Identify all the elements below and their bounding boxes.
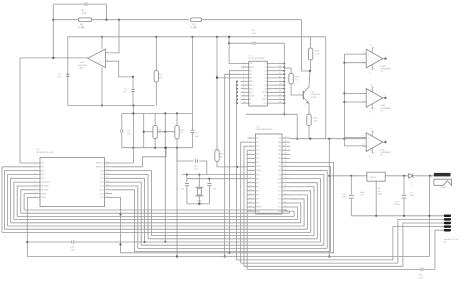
power jack J1: [434, 173, 452, 189]
svg-text:28: 28: [285, 185, 287, 187]
wire: [112, 162, 334, 252]
svg-text:AIM: AIM: [80, 66, 84, 69]
svg-text:7: 7: [250, 161, 251, 163]
svg-text:PC4: PC4: [278, 203, 281, 205]
svg-text:5: 5: [441, 223, 442, 225]
svg-text:PC0: PC0: [278, 186, 281, 188]
svg-text:10: 10: [35, 192, 37, 194]
wire: [26, 197, 32, 256]
wire: [122, 147, 193, 149]
wire: [237, 227, 444, 260]
capacitor C8: [252, 30, 257, 45]
svg-text:LM: LM: [378, 191, 381, 193]
wire: [2, 167, 33, 233]
wire: [309, 71, 310, 87]
wire: [21, 212, 290, 214]
wire: [53, 3, 84, 5]
node bus dots: [236, 81, 238, 260]
svg-text:35: 35: [285, 157, 287, 159]
svg-text:PA6: PA6: [278, 165, 281, 168]
potentiometer R10: [175, 113, 185, 147]
wire: [290, 195, 307, 229]
svg-text:11: 11: [35, 196, 37, 198]
svg-text:PB6: PB6: [256, 199, 259, 201]
wire: [112, 190, 134, 252]
svg-text:21: 21: [279, 73, 281, 75]
svg-text:PB7: PB7: [256, 203, 259, 205]
wire: [164, 113, 166, 131]
resistor R12: [308, 37, 320, 60]
svg-text:PC3: PC3: [278, 199, 281, 201]
crystal Y1: [195, 175, 203, 206]
svg-text:3: 3: [243, 69, 244, 71]
wire: [244, 146, 248, 266]
wire: [105, 4, 107, 20]
svg-text:2: 2: [35, 161, 36, 163]
svg-text:18: 18: [279, 84, 281, 86]
resistor R14: [307, 103, 318, 138]
wire: [241, 142, 248, 263]
wire: [290, 175, 324, 246]
potentiometer R9: [153, 113, 162, 147]
wire: [428, 176, 430, 257]
wire: [246, 113, 297, 115]
wire: [8, 225, 305, 227]
wire: [8, 174, 33, 226]
svg-text:PB.0: PB.0: [41, 163, 45, 165]
svg-text:+5V: +5V: [360, 195, 364, 197]
wire: [187, 186, 210, 205]
wire: [290, 207, 297, 220]
svg-text:PB4: PB4: [256, 191, 259, 193]
svg-text:8: 8: [35, 184, 36, 186]
svg-text:PB.4: PB.4: [41, 178, 45, 180]
svg-text:33: 33: [285, 165, 287, 167]
svg-text:4: 4: [243, 73, 244, 75]
svg-text:2: 2: [243, 66, 244, 68]
svg-text:PB2: PB2: [256, 182, 259, 184]
svg-text:B2: B2: [249, 103, 251, 105]
svg-text:16: 16: [107, 177, 109, 179]
svg-text:PD3: PD3: [256, 150, 259, 152]
wire: [17, 215, 294, 217]
svg-text:6: 6: [35, 177, 36, 179]
transistor Q1: [300, 87, 321, 106]
wire: [112, 178, 146, 243]
wire: [202, 20, 312, 72]
svg-text:12: 12: [107, 161, 109, 163]
IC U4 box: [249, 56, 268, 107]
wire: [88, 3, 107, 5]
wire: [112, 174, 148, 238]
capacitor C17: [395, 176, 407, 216]
svg-text:3: 3: [35, 165, 36, 167]
svg-text:PA3: PA3: [278, 153, 281, 156]
wire: [217, 161, 248, 168]
svg-text:9: 9: [441, 230, 442, 232]
wire: [106, 61, 135, 78]
wire: [112, 186, 138, 248]
svg-text:2: 2: [250, 141, 251, 143]
wire: [291, 84, 303, 95]
svg-text:B4: B4: [265, 88, 267, 90]
wire: [344, 101, 366, 103]
svg-text:25: 25: [285, 197, 287, 199]
svg-text:PD.5: PD.5: [100, 182, 104, 184]
IC U2 left pins: [248, 137, 262, 213]
svg-text:1M: 1M: [159, 77, 162, 79]
svg-text:CMP/PD.1: CMP/PD.1: [96, 163, 104, 165]
svg-text:22: 22: [279, 69, 281, 71]
svg-text:PB.7/SCK: PB.7/SCK: [41, 190, 49, 192]
wire: [344, 137, 366, 139]
wire: [21, 190, 33, 213]
wire: [27, 241, 320, 243]
svg-text:1uF: 1uF: [123, 92, 127, 94]
IC U3 right pins: [96, 161, 112, 199]
svg-text:RESET: RESET: [256, 207, 262, 209]
svg-text:XTAL2: XTAL2: [256, 165, 261, 168]
wire: [328, 139, 330, 258]
wire: [24, 194, 32, 210]
svg-text:40: 40: [285, 137, 287, 139]
wire: [5, 228, 308, 230]
wire: [20, 57, 88, 59]
svg-text:OSC1: OSC1: [99, 193, 104, 195]
wire: [343, 54, 345, 146]
svg-text:B8: B8: [265, 85, 267, 87]
wire: [5, 171, 33, 230]
wire: [290, 183, 317, 239]
svg-text:PB1: PB1: [256, 178, 259, 180]
svg-text:3: 3: [373, 131, 374, 133]
svg-text:2N3904A: 2N3904A: [311, 93, 320, 96]
svg-text:14: 14: [107, 169, 109, 171]
svg-text:14: 14: [385, 139, 387, 141]
resistor R5: [190, 18, 201, 30]
svg-text:D4: D4: [265, 70, 267, 72]
svg-text:INLO: INLO: [249, 88, 254, 90]
svg-text:RESET: RESET: [41, 193, 47, 195]
svg-text:24: 24: [279, 62, 281, 64]
svg-text:PB0: PB0: [256, 174, 259, 176]
wire: [329, 175, 367, 177]
svg-text:27: 27: [285, 189, 287, 191]
svg-text:4.99K: 4.99K: [191, 26, 198, 29]
wire: [106, 20, 120, 53]
wire: [199, 161, 206, 175]
svg-text:12: 12: [243, 102, 245, 104]
svg-text:23: 23: [285, 205, 287, 207]
wire: [17, 186, 32, 216]
svg-text:16: 16: [279, 91, 281, 93]
wire: [143, 113, 145, 147]
svg-text:17: 17: [107, 181, 109, 183]
wire: [2, 231, 311, 233]
svg-text:7: 7: [441, 226, 442, 228]
svg-text:15: 15: [250, 193, 252, 195]
svg-text:BUF: BUF: [249, 78, 252, 80]
svg-text:PA4: PA4: [278, 157, 281, 160]
wire: [246, 150, 248, 269]
svg-text:15: 15: [279, 94, 281, 96]
svg-text:19: 19: [279, 80, 281, 82]
svg-text:XTAL1: XTAL1: [41, 196, 46, 199]
svg-text:20: 20: [107, 192, 109, 194]
op-amp U5A: [362, 45, 391, 74]
svg-text:14: 14: [250, 189, 252, 191]
svg-text:PD.4: PD.4: [100, 178, 104, 180]
wire: [187, 178, 248, 180]
wire: [187, 175, 210, 183]
svg-text:26: 26: [285, 193, 287, 195]
wire: [241, 219, 444, 263]
svg-text:5: 5: [243, 76, 244, 78]
wire: [247, 268, 420, 270]
wire: [290, 138, 366, 140]
wire: [290, 191, 311, 233]
svg-text:PD2: PD2: [256, 146, 259, 148]
svg-text:PB5: PB5: [256, 195, 259, 197]
svg-text:INT0: INT0: [100, 170, 104, 172]
wire: [121, 133, 123, 148]
svg-text:PD6: PD6: [256, 162, 259, 164]
wire: [157, 131, 175, 133]
voltage regulator U6: [360, 172, 385, 196]
wire: [176, 148, 178, 258]
wire: [68, 104, 155, 106]
svg-text:D5: D5: [265, 67, 267, 69]
svg-text:4.99K: 4.99K: [79, 26, 86, 29]
wire: [228, 37, 241, 64]
capacitor C10: [121, 129, 131, 135]
resistor R13: [284, 68, 300, 84]
wire: [385, 175, 408, 177]
wire: [101, 68, 103, 107]
svg-text:8: 8: [250, 165, 251, 167]
svg-text:XTAL1: XTAL1: [256, 169, 261, 172]
wire: [228, 71, 240, 254]
capacitor C7: [82, 2, 88, 15]
svg-text:.1uF: .1uF: [126, 133, 131, 135]
wire: [11, 222, 301, 224]
svg-text:13: 13: [107, 165, 109, 167]
svg-text:2: 2: [305, 89, 306, 91]
wire: [351, 215, 443, 217]
svg-text:.1uF: .1uF: [252, 33, 257, 35]
IC U3 box: [37, 149, 105, 206]
svg-text:PB.2: PB.2: [41, 170, 45, 172]
svg-text:18: 18: [250, 205, 252, 207]
wire: [224, 74, 241, 257]
svg-text:14: 14: [279, 98, 281, 100]
svg-text:29: 29: [285, 181, 287, 183]
wire: [344, 145, 366, 147]
svg-text:34: 34: [285, 161, 287, 163]
svg-text:1uF: 1uF: [195, 136, 199, 138]
svg-text:2: 2: [385, 95, 386, 97]
svg-text:U1A: U1A: [80, 61, 85, 64]
svg-text:16: 16: [250, 197, 252, 199]
svg-text:PC6: PC6: [278, 211, 281, 213]
svg-text:10uF: 10uF: [342, 196, 348, 198]
svg-text:6: 6: [250, 157, 251, 159]
svg-text:PC2: PC2: [278, 195, 281, 197]
svg-text:XTAL1: XTAL1: [197, 200, 204, 203]
svg-text:21: 21: [107, 196, 109, 198]
wire: [286, 210, 288, 211]
svg-text:PA1: PA1: [278, 145, 281, 148]
svg-text:INHI: INHI: [249, 92, 253, 94]
wire: [290, 199, 304, 226]
resistor R7: [154, 37, 163, 106]
connector J2 header: [441, 215, 458, 244]
svg-text:PA7: PA7: [278, 169, 281, 172]
svg-text:7: 7: [243, 84, 244, 86]
capacitor C6: [123, 77, 135, 106]
svg-text:PD.3: PD.3: [100, 174, 104, 176]
svg-text:3: 3: [250, 145, 251, 147]
wire: [344, 53, 366, 55]
svg-text:1: 1: [250, 137, 251, 139]
wire: [289, 211, 291, 213]
svg-text:13: 13: [250, 185, 252, 187]
wire: [14, 219, 298, 221]
capacitor C12: [181, 184, 190, 191]
wire: [216, 77, 241, 79]
wire: [413, 175, 434, 177]
svg-text:24: 24: [285, 201, 287, 203]
svg-text:12: 12: [373, 152, 375, 154]
svg-text:17: 17: [250, 201, 252, 203]
capacitor C5: [57, 74, 70, 79]
op-amp U5C: [362, 129, 391, 158]
wire: [67, 37, 69, 106]
svg-text:LM339AN: LM339AN: [381, 107, 391, 110]
svg-text:78L05: 78L05: [370, 177, 377, 179]
IC U2 box: [255, 126, 282, 214]
svg-text:3: 3: [305, 104, 306, 106]
svg-text:PA2: PA2: [278, 149, 281, 152]
svg-text:39: 39: [285, 141, 287, 143]
svg-text:PB.1: PB.1: [41, 167, 45, 169]
wire: [177, 148, 194, 161]
svg-text:V+: V+: [265, 63, 267, 65]
wire: [141, 244, 324, 246]
wire: [134, 251, 330, 253]
svg-text:CMP/PD.2: CMP/PD.2: [96, 167, 104, 169]
svg-text:9: 9: [35, 188, 36, 190]
svg-text:AT90S2313-10PC: AT90S2313-10PC: [37, 151, 55, 154]
wire: [290, 211, 294, 216]
svg-text:1: 1: [441, 216, 442, 218]
wire: [290, 179, 321, 242]
svg-text:11: 11: [250, 177, 252, 179]
svg-text:REF+: REF+: [249, 85, 253, 87]
svg-text:LM339AN: LM339AN: [381, 151, 391, 154]
wire: [290, 187, 314, 236]
svg-text:1: 1: [243, 62, 244, 64]
svg-text:PC1: PC1: [278, 191, 281, 193]
svg-text:POL: POL: [263, 103, 266, 105]
wire: [101, 36, 103, 49]
wire: [14, 182, 33, 219]
svg-text:.1uF: .1uF: [194, 168, 199, 170]
svg-text:7: 7: [35, 181, 36, 183]
wire: [309, 60, 311, 72]
wire: [143, 131, 153, 133]
svg-text:17: 17: [279, 87, 281, 89]
svg-text:10: 10: [243, 94, 245, 96]
svg-text:4: 4: [250, 149, 251, 151]
svg-text:U5C: U5C: [381, 149, 386, 151]
capacitor C13: [207, 184, 217, 191]
resistor R11: [215, 37, 225, 162]
svg-text:31: 31: [285, 173, 287, 175]
svg-text:37: 37: [285, 149, 287, 151]
wire: [138, 247, 327, 249]
svg-text:U5B: U5B: [381, 105, 386, 107]
svg-text:20: 20: [279, 76, 281, 78]
svg-text:36: 36: [285, 153, 287, 155]
svg-text:4.7K: 4.7K: [315, 53, 320, 55]
op-amp U5B: [362, 84, 391, 113]
svg-text:19: 19: [107, 188, 109, 190]
svg-text:PA5: PA5: [278, 161, 281, 164]
svg-text:PC5: PC5: [278, 207, 281, 209]
wire: [24, 209, 287, 211]
svg-text:18: 18: [107, 184, 109, 186]
svg-text:23: 23: [279, 66, 281, 68]
svg-text:5: 5: [250, 153, 251, 155]
svg-text:OSC2: OSC2: [99, 190, 104, 192]
wire: [112, 171, 151, 236]
svg-text:.1uF: .1uF: [70, 249, 75, 251]
svg-text:15: 15: [107, 173, 109, 175]
svg-text:PB.5/MOSI: PB.5/MOSI: [41, 182, 50, 184]
svg-text:38: 38: [285, 145, 287, 147]
wire: [53, 19, 78, 21]
svg-text:3: 3: [373, 87, 374, 89]
svg-text:INT: INT: [249, 70, 252, 72]
svg-text:PD5: PD5: [256, 158, 259, 160]
wire: [112, 106, 134, 164]
wire: [228, 36, 252, 44]
svg-text:AGND: AGND: [249, 66, 255, 69]
svg-text:1: 1: [300, 93, 301, 95]
wire: [52, 4, 54, 59]
svg-text:B1: B1: [249, 99, 251, 101]
svg-text:3: 3: [373, 48, 374, 50]
svg-text:32: 32: [285, 169, 287, 171]
svg-text:ICL7135CPI/ND: ICL7135CPI/ND: [249, 58, 265, 60]
svg-text:9: 9: [250, 169, 251, 171]
wire: [283, 43, 285, 115]
IC U2 right pins: [277, 137, 290, 213]
svg-text:3: 3: [441, 219, 442, 221]
svg-text:U5A: U5A: [381, 65, 386, 68]
wire: [325, 37, 327, 139]
wire: [290, 166, 330, 251]
wire: [151, 235, 314, 237]
wire: [182, 174, 248, 176]
wire: [344, 92, 366, 94]
wire: [244, 223, 444, 266]
wire: [68, 36, 326, 38]
wire: [290, 171, 327, 249]
IC U4 right pins: [262, 62, 285, 105]
svg-text:PD0: PD0: [256, 138, 259, 140]
